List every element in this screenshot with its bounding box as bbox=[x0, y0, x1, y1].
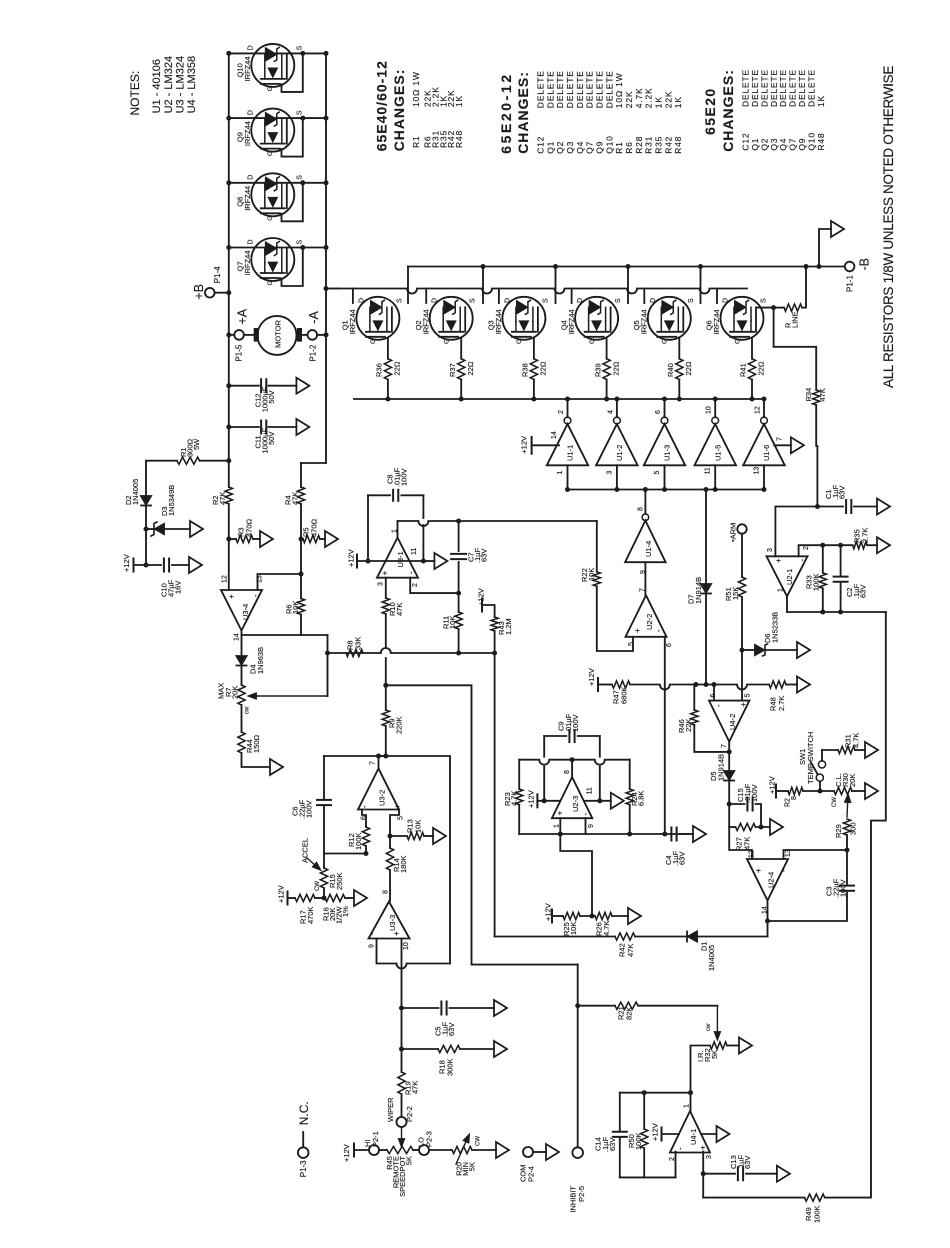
svg-text:22Ω: 22Ω bbox=[539, 361, 548, 375]
svg-text:1N4005: 1N4005 bbox=[707, 945, 716, 971]
svg-text:P1-5: P1-5 bbox=[234, 344, 243, 361]
svg-text:9: 9 bbox=[369, 944, 376, 948]
svg-text:+12V: +12V bbox=[651, 1123, 660, 1141]
svg-text:6: 6 bbox=[655, 410, 662, 414]
svg-text:D: D bbox=[248, 239, 255, 244]
svg-text:S: S bbox=[761, 298, 768, 303]
svg-text:7: 7 bbox=[721, 744, 728, 748]
svg-text:U1-2: U1-2 bbox=[615, 445, 624, 461]
svg-text:R1: R1 bbox=[411, 136, 421, 148]
svg-text:1.2M: 1.2M bbox=[504, 618, 513, 635]
svg-text:U3-1: U3-1 bbox=[396, 551, 405, 567]
svg-text:1: 1 bbox=[557, 471, 564, 475]
svg-text:•ARM: •ARM bbox=[729, 523, 738, 542]
svg-text:47K: 47K bbox=[411, 1081, 420, 1094]
svg-text:1: 1 bbox=[684, 1104, 691, 1108]
svg-text:S: S bbox=[542, 298, 549, 303]
svg-text:U4-1: U4-1 bbox=[689, 1129, 698, 1145]
svg-text:U3-4: U3-4 bbox=[241, 604, 250, 620]
svg-text:G: G bbox=[516, 339, 523, 344]
svg-text:NOTES:: NOTES: bbox=[128, 71, 142, 116]
svg-text:U1-5: U1-5 bbox=[713, 445, 722, 461]
svg-text:10K: 10K bbox=[291, 601, 300, 614]
svg-text:-: - bbox=[581, 813, 590, 816]
svg-text:Q9: Q9 bbox=[595, 141, 605, 154]
svg-text:12: 12 bbox=[222, 575, 229, 583]
svg-text:8: 8 bbox=[564, 770, 571, 774]
svg-text:1K: 1K bbox=[673, 96, 683, 108]
svg-text:8: 8 bbox=[638, 507, 645, 511]
svg-text:10K: 10K bbox=[414, 820, 423, 833]
svg-text:P1-1: P1-1 bbox=[845, 275, 854, 292]
svg-text:S: S bbox=[396, 298, 403, 303]
svg-text:R1: R1 bbox=[614, 141, 624, 153]
svg-text:N.C.: N.C. bbox=[297, 1101, 311, 1125]
svg-text:-: - bbox=[251, 594, 260, 597]
svg-text:U1 - 40106: U1 - 40106 bbox=[151, 59, 163, 113]
svg-text:1N5233B: 1N5233B bbox=[771, 612, 780, 643]
svg-text:DELETE: DELETE bbox=[555, 70, 565, 108]
svg-text:DELETE: DELETE bbox=[545, 70, 555, 108]
svg-text:G: G bbox=[662, 339, 669, 344]
svg-text:7: 7 bbox=[640, 588, 647, 592]
svg-text:R48: R48 bbox=[816, 133, 826, 151]
svg-text:82K: 82K bbox=[625, 1007, 634, 1020]
svg-text:DELETE: DELETE bbox=[595, 70, 605, 108]
svg-text:5: 5 bbox=[654, 471, 661, 475]
svg-text:22Ω: 22Ω bbox=[466, 361, 475, 375]
svg-text:3: 3 bbox=[767, 548, 774, 552]
svg-text:U2-3: U2-3 bbox=[571, 796, 580, 812]
svg-text:cw: cw bbox=[245, 706, 251, 714]
svg-text:+12V: +12V bbox=[277, 885, 286, 903]
svg-text:CW: CW bbox=[476, 1136, 482, 1146]
svg-text:63V: 63V bbox=[678, 852, 687, 865]
svg-text:S: S bbox=[297, 240, 304, 245]
svg-text:-A: -A bbox=[307, 311, 321, 324]
svg-text:R40: R40 bbox=[666, 363, 675, 377]
svg-text:+: + bbox=[774, 558, 783, 563]
svg-text:U3-3: U3-3 bbox=[388, 915, 397, 931]
svg-text:1N5349B: 1N5349B bbox=[167, 485, 176, 516]
svg-text:11: 11 bbox=[705, 467, 712, 474]
svg-text:U2 - LM324: U2 - LM324 bbox=[163, 56, 175, 113]
svg-text:Q2: Q2 bbox=[555, 141, 565, 154]
svg-text:+12V: +12V bbox=[587, 668, 596, 686]
svg-text:5K: 5K bbox=[710, 1050, 719, 1059]
svg-text:+A: +A bbox=[236, 308, 250, 324]
svg-text:4.7K: 4.7K bbox=[852, 733, 861, 748]
svg-text:G: G bbox=[444, 339, 451, 344]
svg-text:7: 7 bbox=[370, 761, 377, 765]
svg-text:ALL RESISTORS 1/8W UNLESS NOTE: ALL RESISTORS 1/8W UNLESS NOTED OTHERWIS… bbox=[881, 66, 896, 388]
svg-text:-: - bbox=[360, 805, 369, 808]
svg-text:P2-5: P2-5 bbox=[577, 1186, 586, 1202]
svg-text:+: + bbox=[380, 571, 389, 576]
svg-text:DELETE: DELETE bbox=[565, 70, 575, 108]
svg-text:22K: 22K bbox=[684, 719, 693, 732]
svg-text:10: 10 bbox=[706, 406, 713, 414]
svg-text:D: D bbox=[504, 298, 511, 303]
svg-text:47K: 47K bbox=[291, 492, 300, 505]
svg-text:-: - bbox=[675, 1147, 684, 1150]
svg-text:12: 12 bbox=[749, 850, 756, 858]
svg-text:D: D bbox=[577, 298, 584, 303]
svg-text:-: - bbox=[654, 629, 663, 632]
svg-text:11: 11 bbox=[587, 787, 594, 794]
svg-text:3: 3 bbox=[706, 1155, 713, 1159]
svg-text:1N914B: 1N914B bbox=[717, 754, 726, 781]
svg-text:D: D bbox=[723, 298, 730, 303]
svg-text:5K: 5K bbox=[468, 1162, 477, 1171]
svg-text:50V: 50V bbox=[267, 432, 276, 445]
svg-text:65E40/60-12: 65E40/60-12 bbox=[374, 60, 390, 151]
svg-text:4.7K: 4.7K bbox=[634, 88, 644, 109]
svg-text:U4 - LM358: U4 - LM358 bbox=[186, 56, 198, 113]
svg-text:1N963B: 1N963B bbox=[256, 647, 265, 674]
svg-text:63V: 63V bbox=[447, 1023, 456, 1036]
svg-text:IRFZ44: IRFZ44 bbox=[712, 309, 721, 334]
svg-text:6: 6 bbox=[666, 643, 673, 647]
svg-text:G: G bbox=[370, 339, 377, 344]
svg-text:2.7K: 2.7K bbox=[861, 528, 870, 543]
svg-text:5: 5 bbox=[744, 694, 751, 698]
svg-text:S: S bbox=[297, 110, 304, 115]
svg-text:S: S bbox=[470, 298, 477, 303]
svg-text:1K: 1K bbox=[454, 95, 464, 107]
svg-text:680K: 680K bbox=[620, 686, 629, 704]
svg-text:13: 13 bbox=[754, 467, 761, 475]
svg-text:IRFZ44: IRFZ44 bbox=[243, 250, 252, 275]
svg-text:22Ω: 22Ω bbox=[393, 361, 402, 375]
svg-text:D: D bbox=[248, 45, 255, 50]
svg-text:U3-2: U3-2 bbox=[378, 790, 387, 806]
svg-text:Q7: Q7 bbox=[585, 141, 595, 154]
svg-text:150Ω: 150Ω bbox=[252, 734, 261, 753]
svg-text:-: - bbox=[406, 571, 415, 574]
svg-text:20K: 20K bbox=[848, 774, 857, 787]
svg-text:470Ω: 470Ω bbox=[245, 518, 254, 537]
svg-text:1%: 1% bbox=[341, 906, 350, 917]
svg-text:100K: 100K bbox=[813, 1205, 822, 1223]
svg-text:+: + bbox=[698, 1145, 707, 1150]
svg-text:+12V: +12V bbox=[527, 790, 536, 808]
svg-text:11: 11 bbox=[411, 548, 418, 555]
svg-text:Q4: Q4 bbox=[575, 141, 585, 154]
svg-text:D: D bbox=[650, 298, 657, 303]
svg-text:2: 2 bbox=[803, 546, 810, 550]
svg-text:3: 3 bbox=[606, 471, 613, 475]
svg-text:-: - bbox=[367, 932, 376, 935]
svg-text:DELETE: DELETE bbox=[575, 70, 585, 108]
svg-text:5W: 5W bbox=[192, 438, 201, 450]
svg-text:1K: 1K bbox=[816, 95, 826, 107]
svg-text:300: 300 bbox=[849, 822, 858, 835]
svg-text:14: 14 bbox=[551, 431, 558, 439]
svg-text:TEMP SWITCH: TEMP SWITCH bbox=[806, 732, 815, 784]
svg-text:R6: R6 bbox=[624, 141, 634, 153]
svg-text:IRFZ44: IRFZ44 bbox=[243, 186, 252, 211]
svg-text:12: 12 bbox=[755, 406, 762, 414]
svg-text:2.7K: 2.7K bbox=[777, 696, 786, 711]
svg-text:+: + bbox=[392, 931, 401, 936]
svg-text:2.2K: 2.2K bbox=[644, 88, 654, 109]
svg-text:63V: 63V bbox=[608, 1138, 617, 1151]
svg-text:P2-4: P2-4 bbox=[527, 1166, 536, 1182]
svg-text:cw: cw bbox=[706, 1023, 712, 1031]
svg-text:CW: CW bbox=[832, 797, 838, 807]
svg-text:22K: 22K bbox=[663, 91, 673, 109]
svg-text:ACCEL: ACCEL bbox=[301, 838, 310, 863]
svg-text:47K: 47K bbox=[743, 837, 752, 850]
svg-text:R39: R39 bbox=[593, 363, 602, 377]
svg-text:D: D bbox=[248, 175, 255, 180]
svg-text:CHANGES:: CHANGES: bbox=[515, 71, 531, 154]
svg-text:S: S bbox=[297, 175, 304, 180]
svg-text:8: 8 bbox=[791, 796, 798, 800]
svg-text:470K: 470K bbox=[306, 906, 315, 924]
svg-text:U1-1: U1-1 bbox=[566, 445, 575, 461]
svg-text:-: - bbox=[714, 704, 723, 707]
svg-text:R48: R48 bbox=[454, 130, 464, 148]
svg-text:100K: 100K bbox=[812, 573, 821, 591]
svg-text:+B: +B bbox=[192, 284, 206, 300]
svg-text:10Ω 1W: 10Ω 1W bbox=[614, 72, 624, 108]
svg-text:R38: R38 bbox=[521, 363, 530, 377]
svg-text:100V: 100V bbox=[839, 879, 848, 897]
svg-text:+12V: +12V bbox=[122, 554, 131, 572]
svg-text:63V: 63V bbox=[480, 549, 489, 562]
svg-text:100K: 100K bbox=[634, 1132, 643, 1150]
svg-text:IRFZ44: IRFZ44 bbox=[243, 56, 252, 81]
svg-text:10Ω 1W: 10Ω 1W bbox=[411, 71, 421, 107]
svg-text:+12V: +12V bbox=[520, 436, 529, 454]
svg-text:5K: 5K bbox=[405, 1156, 414, 1165]
svg-text:G: G bbox=[734, 339, 741, 344]
svg-text:+12V: +12V bbox=[342, 1144, 351, 1162]
svg-text:14: 14 bbox=[234, 633, 241, 641]
svg-text:R29: R29 bbox=[834, 824, 843, 838]
svg-text:100K: 100K bbox=[354, 832, 363, 850]
svg-text:U1-3: U1-3 bbox=[663, 445, 672, 461]
svg-text:P2-1: P2-1 bbox=[371, 1131, 380, 1147]
svg-text:D: D bbox=[248, 110, 255, 115]
svg-text:CHANGES:: CHANGES: bbox=[720, 69, 736, 152]
svg-text:Q3: Q3 bbox=[565, 141, 575, 154]
svg-text:-: - bbox=[797, 559, 806, 562]
svg-text:+: + bbox=[739, 702, 748, 707]
svg-text:CW: CW bbox=[315, 881, 321, 891]
svg-text:65E20: 65E20 bbox=[702, 87, 718, 134]
svg-text:33K: 33K bbox=[354, 637, 363, 650]
svg-text:IRFZ44: IRFZ44 bbox=[640, 309, 649, 334]
svg-text:16V: 16V bbox=[174, 581, 183, 594]
svg-text:47K: 47K bbox=[218, 492, 227, 505]
svg-text:R41: R41 bbox=[739, 363, 748, 377]
svg-text:DELETE: DELETE bbox=[604, 70, 614, 108]
svg-text:100V: 100V bbox=[400, 468, 409, 486]
svg-text:U4-2: U4-2 bbox=[728, 714, 737, 730]
svg-text:100V: 100V bbox=[750, 784, 759, 802]
svg-text:R37: R37 bbox=[448, 363, 457, 377]
svg-text:1N914B: 1N914B bbox=[694, 577, 703, 604]
svg-text:R31: R31 bbox=[644, 136, 654, 154]
svg-text:IRFZ44: IRFZ44 bbox=[421, 309, 430, 334]
svg-text:U2-2: U2-2 bbox=[645, 614, 654, 630]
svg-text:S: S bbox=[688, 298, 695, 303]
svg-text:8: 8 bbox=[383, 890, 390, 894]
svg-text:+: + bbox=[633, 628, 642, 633]
svg-text:22K: 22K bbox=[624, 91, 634, 109]
svg-text:R34: R34 bbox=[804, 388, 813, 402]
svg-text:R48: R48 bbox=[673, 136, 683, 154]
svg-text:6.8K: 6.8K bbox=[637, 791, 646, 806]
svg-text:250K: 250K bbox=[335, 872, 344, 890]
svg-text:+: + bbox=[754, 868, 763, 873]
svg-text:G: G bbox=[267, 151, 274, 156]
svg-text:P1-3: P1-3 bbox=[299, 1160, 308, 1177]
svg-text:MOTOR: MOTOR bbox=[274, 319, 283, 347]
svg-text:G: G bbox=[267, 86, 274, 91]
svg-text:22Ω: 22Ω bbox=[684, 361, 693, 375]
svg-text:22Ω: 22Ω bbox=[757, 361, 766, 375]
svg-text:+: + bbox=[227, 594, 236, 599]
svg-text:5: 5 bbox=[628, 642, 635, 646]
svg-text:-: - bbox=[779, 869, 788, 872]
svg-text:D: D bbox=[432, 298, 439, 303]
svg-text:Q10: Q10 bbox=[604, 135, 614, 153]
svg-text:DELETE: DELETE bbox=[536, 70, 546, 108]
svg-text:U2-4: U2-4 bbox=[767, 872, 776, 888]
svg-text:P1-4: P1-4 bbox=[213, 266, 222, 283]
svg-text:IRFZ44: IRFZ44 bbox=[348, 309, 357, 334]
svg-text:1: 1 bbox=[778, 588, 785, 592]
svg-text:CHANGES:: CHANGES: bbox=[391, 69, 407, 152]
svg-text:IRFZ44: IRFZ44 bbox=[243, 121, 252, 146]
svg-text:47K: 47K bbox=[626, 944, 635, 957]
svg-text:4.7K: 4.7K bbox=[510, 791, 519, 806]
svg-text:63V: 63V bbox=[838, 486, 847, 499]
svg-text:R35: R35 bbox=[654, 136, 664, 154]
svg-text:+12V: +12V bbox=[347, 549, 356, 567]
svg-text:65E20-12: 65E20-12 bbox=[498, 72, 514, 154]
svg-text:22Ω: 22Ω bbox=[611, 361, 620, 375]
svg-text:47K: 47K bbox=[818, 388, 827, 401]
svg-text:IRFZ44: IRFZ44 bbox=[567, 309, 576, 334]
svg-text:2: 2 bbox=[412, 583, 419, 587]
svg-text:220K: 220K bbox=[395, 716, 404, 734]
svg-text:2: 2 bbox=[669, 1157, 676, 1161]
svg-text:D: D bbox=[358, 298, 365, 303]
svg-text:G: G bbox=[267, 280, 274, 285]
svg-text:3: 3 bbox=[378, 582, 385, 586]
svg-text:63V: 63V bbox=[859, 585, 868, 598]
svg-text:1K: 1K bbox=[654, 96, 664, 108]
svg-text:10K: 10K bbox=[587, 568, 596, 581]
svg-text:100V: 100V bbox=[571, 714, 580, 732]
svg-text:Q1: Q1 bbox=[545, 141, 555, 154]
svg-text:C12: C12 bbox=[536, 136, 546, 154]
svg-text:S: S bbox=[615, 298, 622, 303]
svg-text:63V: 63V bbox=[743, 1156, 752, 1169]
svg-text:DELETE: DELETE bbox=[585, 70, 595, 108]
svg-text:P1-2: P1-2 bbox=[308, 344, 317, 361]
svg-text:7: 7 bbox=[777, 437, 784, 441]
svg-text:4: 4 bbox=[607, 410, 614, 414]
svg-text:100V: 100V bbox=[305, 800, 314, 818]
svg-text:G: G bbox=[267, 216, 274, 221]
svg-text:WIPER: WIPER bbox=[386, 1097, 395, 1122]
svg-text:S: S bbox=[297, 45, 304, 50]
svg-text:47K: 47K bbox=[395, 603, 404, 616]
svg-text:R42: R42 bbox=[663, 136, 673, 154]
svg-text:2: 2 bbox=[558, 410, 565, 414]
svg-text:5: 5 bbox=[398, 816, 405, 820]
svg-text:470Ω: 470Ω bbox=[310, 518, 319, 537]
svg-text:300K: 300K bbox=[446, 1058, 455, 1076]
svg-text:R28: R28 bbox=[634, 136, 644, 154]
svg-text:1N4005: 1N4005 bbox=[131, 479, 140, 505]
svg-text:U3 - LM324: U3 - LM324 bbox=[175, 56, 187, 113]
svg-text:50V: 50V bbox=[267, 390, 276, 403]
svg-text:20K: 20K bbox=[231, 686, 240, 699]
svg-text:9: 9 bbox=[588, 824, 595, 828]
svg-text:10K: 10K bbox=[448, 616, 457, 629]
svg-text:180K: 180K bbox=[399, 855, 408, 873]
svg-text:G: G bbox=[589, 339, 596, 344]
svg-text:LINE: LINE bbox=[791, 311, 800, 328]
svg-text:IRFZ44: IRFZ44 bbox=[494, 309, 503, 334]
svg-text:U1-4: U1-4 bbox=[644, 541, 653, 557]
svg-text:R36: R36 bbox=[375, 363, 384, 377]
svg-text:4.7K: 4.7K bbox=[602, 921, 611, 936]
svg-text:U1-6: U1-6 bbox=[762, 445, 771, 461]
svg-text:10K: 10K bbox=[569, 922, 578, 935]
svg-text:10: 10 bbox=[403, 942, 410, 950]
svg-text:P2-3: P2-3 bbox=[425, 1131, 434, 1147]
svg-text:15K: 15K bbox=[731, 587, 740, 600]
svg-text:+: + bbox=[555, 811, 564, 816]
svg-text:+: + bbox=[393, 804, 402, 809]
svg-text:-B: -B bbox=[858, 258, 872, 271]
svg-text:U2-1: U2-1 bbox=[785, 569, 794, 585]
